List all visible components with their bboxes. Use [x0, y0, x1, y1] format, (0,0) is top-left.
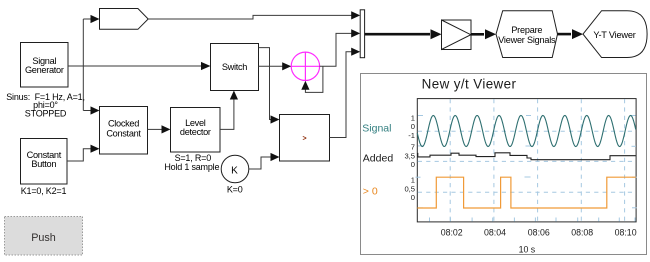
wire K to comparator	[249, 157, 272, 169]
trace Added steps	[417, 153, 636, 160]
arrowhead into Level detector	[162, 125, 171, 133]
wire SignalGenerator to Switch	[68, 65, 202, 67]
x axis tick labels	[441, 227, 637, 237]
svg-text:K: K	[231, 165, 238, 176]
wire ClockedConstant to LevelDetector	[148, 128, 163, 130]
label S R values	[164, 153, 219, 172]
svg-text:>: >	[303, 136, 307, 143]
arrowhead into summation left	[282, 62, 291, 70]
arrowhead into Switch	[201, 62, 211, 70]
svg-text:K1=0, K2=1: K1=0, K2=1	[21, 186, 67, 196]
block Constant Button	[21, 139, 68, 185]
arrowhead into tag polygon	[91, 15, 100, 23]
svg-text:Signal: Signal	[362, 123, 391, 135]
push button	[5, 217, 83, 256]
wire LevelDetector to Switch	[220, 99, 234, 129]
converter block triangle	[442, 20, 472, 50]
wire mux to converter	[365, 33, 430, 36]
wire branch to tag and clocked constant	[82, 19, 84, 111]
arrowhead into hexagon	[485, 29, 496, 39]
wire ConstantButton to ClockedConstant	[67, 149, 92, 161]
arrowhead into comparator input 1	[271, 115, 280, 123]
arrowhead into mux input 3	[351, 48, 360, 56]
svg-text:New y/t Viewer: New y/t Viewer	[422, 76, 517, 91]
plot frame	[417, 99, 636, 222]
wire converter to hexagon	[471, 33, 484, 36]
block Clocked Constant	[100, 107, 148, 155]
svg-text:-1: -1	[408, 131, 415, 140]
wires thin	[67, 15, 352, 169]
svg-text:> 0: > 0	[363, 186, 378, 198]
svg-text:08:04: 08:04	[484, 227, 506, 237]
arrowhead into comparator input 2	[271, 153, 280, 161]
label Clocked Constant	[106, 118, 141, 138]
grid horizontal dashed	[418, 131, 636, 192]
svg-text:10 s: 10 s	[519, 245, 536, 255]
grid vertical dashed	[450, 99, 624, 222]
comparator block	[280, 115, 330, 162]
wire hexagon to YT viewer	[558, 33, 572, 36]
block Signal Generator	[21, 43, 69, 88]
svg-text:0: 0	[411, 160, 415, 169]
svg-text:Push: Push	[31, 232, 56, 244]
svg-text:08:10: 08:10	[615, 227, 637, 237]
label Sinus parameters	[6, 92, 85, 118]
svg-text:Hold 1 sample: Hold 1 sample	[164, 162, 219, 172]
arrowhead into Clocked Constant input 1	[91, 106, 100, 114]
svg-text:7: 7	[411, 143, 415, 152]
trace threshold square wave	[417, 177, 636, 208]
svg-text:Switch: Switch	[222, 62, 247, 72]
svg-text:Constant: Constant	[106, 128, 141, 138]
svg-text:3,5: 3,5	[404, 151, 415, 160]
axis ticks	[430, 218, 636, 222]
label Prepare Viewer Signals	[498, 25, 556, 45]
block Switch	[211, 44, 259, 91]
svg-text:Added: Added	[363, 153, 394, 165]
gain K1 circle	[221, 155, 249, 183]
svg-text:detector: detector	[180, 127, 211, 137]
svg-text:0,5: 0,5	[404, 184, 415, 193]
svg-text:0: 0	[411, 122, 415, 131]
arrowhead into YT viewer	[572, 29, 583, 39]
block Y-T Viewer	[583, 11, 647, 58]
label Constant Button	[27, 150, 62, 169]
arrowhead into Clocked Constant input 2	[91, 145, 100, 153]
trace Signal sine	[417, 116, 635, 147]
arrowhead into converter	[431, 29, 442, 39]
svg-text:Prepare: Prepare	[511, 25, 542, 35]
wires thick bus	[365, 33, 571, 36]
viewer window frame	[361, 74, 647, 255]
arrowhead into Switch bottom	[230, 91, 238, 100]
svg-text:Y-T Viewer: Y-T Viewer	[593, 30, 635, 40]
svg-text:1: 1	[411, 176, 415, 185]
svg-text:08:08: 08:08	[571, 227, 593, 237]
summation S1	[291, 52, 319, 80]
wire Switch to summation	[259, 65, 284, 67]
svg-text:K=0: K=0	[227, 185, 243, 195]
svg-text:STOPPED: STOPPED	[25, 108, 67, 118]
wire tag to mux	[148, 15, 352, 19]
tag polygon block	[100, 9, 149, 30]
svg-text:1: 1	[411, 113, 415, 122]
block Level detector	[171, 108, 221, 153]
label Signal Generator	[25, 56, 64, 75]
svg-text:08:06: 08:06	[528, 227, 550, 237]
label Level detector	[180, 118, 211, 137]
svg-text:Clocked: Clocked	[108, 118, 139, 128]
arrowhead into mux input 1	[351, 11, 360, 19]
svg-text:0: 0	[411, 193, 415, 202]
svg-text:Button: Button	[31, 159, 56, 169]
hexagon Prepare Viewer Signals	[496, 11, 558, 58]
grid stray dashes	[416, 116, 637, 208]
svg-text:08:02: 08:02	[441, 227, 463, 237]
wire summation to mux	[320, 33, 352, 66]
y axis tick labels	[404, 113, 415, 202]
arrowhead into summation bottom	[301, 81, 309, 90]
arrowhead into mux input 2	[351, 29, 360, 37]
wire summation feedback	[305, 66, 323, 92]
svg-text:Generator: Generator	[25, 65, 64, 75]
svg-text:Viewer Signals: Viewer Signals	[498, 35, 556, 45]
wire comparator to mux	[330, 52, 353, 138]
mux block	[360, 10, 364, 58]
wire Switch tap to comparator	[259, 48, 272, 120]
